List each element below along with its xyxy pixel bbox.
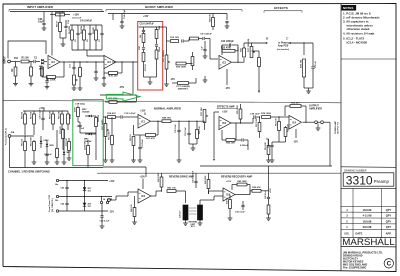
ground below R15 xyxy=(110,159,115,161)
supply rail +15V boost bus xyxy=(108,13,227,15)
revision table column line 2 xyxy=(381,189,383,238)
ground below R10 xyxy=(78,87,83,89)
wire switching bus extension to reverb drive xyxy=(103,166,146,168)
title column divider xyxy=(340,4,342,271)
svg-text:R15 100K: R15 100K xyxy=(109,130,111,140)
resistor R58 1M vertical sw1 xyxy=(24,114,27,124)
resistor R54 10K vertical xyxy=(284,128,287,137)
svg-text:R55 4K7: R55 4K7 xyxy=(291,101,300,104)
svg-text:Amp PCB: Amp PCB xyxy=(278,45,289,48)
resistor R57 1M vertical sw2 xyxy=(33,114,36,124)
svg-text:C30 2.2nF: C30 2.2nF xyxy=(235,212,246,214)
svg-text:R50 47K: R50 47K xyxy=(252,186,261,189)
svg-text:R44 1K: R44 1K xyxy=(226,197,229,204)
svg-text:QPY: QPY xyxy=(386,225,392,229)
wire IC2a output xyxy=(232,61,245,63)
wire C2 to diodes xyxy=(36,61,40,63)
svg-text:FS1: FS1 xyxy=(14,58,19,60)
svg-text:C30 0.1uF: C30 0.1uF xyxy=(40,109,42,119)
reverb transducer coil 1 xyxy=(183,205,188,220)
svg-text:220K/1M: 220K/1M xyxy=(85,142,87,150)
wire join R32 C32 xyxy=(304,87,313,89)
svg-text:R6 47: R6 47 xyxy=(56,20,59,27)
resistor R56 1M vertical lower1 xyxy=(24,142,27,151)
svg-text:C42 47uF: C42 47uF xyxy=(264,190,267,199)
row2 bottom bus xyxy=(200,165,332,167)
capacitor C16 0.047uF vertical xyxy=(64,25,67,27)
ground below R6/C16 xyxy=(61,43,66,45)
svg-text:R60 22K: R60 22K xyxy=(59,111,61,119)
resistor R28 vertical near boost bus xyxy=(212,18,215,27)
svg-text:4. All resistors 1/4 watt.: 4. All resistors 1/4 watt. xyxy=(343,32,375,36)
capacitor C36 10uF xyxy=(187,132,190,134)
capacitor C11 22uF vertical xyxy=(138,146,141,148)
resistor R59 10K vertical sw3 xyxy=(52,114,55,124)
wire reverb drive output xyxy=(151,195,156,197)
svg-text:DRAWING NUMBER: DRAWING NUMBER xyxy=(344,169,367,172)
ground below C35 xyxy=(177,159,182,161)
capacitor C37 0.022uF xyxy=(235,139,241,141)
svg-text:R8 470K: R8 470K xyxy=(80,25,83,34)
resistor R51 vertical under C42 xyxy=(267,205,270,214)
svg-text:R12 1K5: R12 1K5 xyxy=(170,37,179,39)
arrow effects rail down xyxy=(213,159,215,161)
svg-text:R40 100: R40 100 xyxy=(130,204,133,212)
svg-text:POT 10K(B): POT 10K(B) xyxy=(163,50,165,62)
wire +15V rail drop to op-amp IC1a xyxy=(51,12,53,56)
highlight green box reverb switch cell xyxy=(73,100,103,166)
svg-text:+15V: +15V xyxy=(140,177,146,179)
wire joining R6 C16 xyxy=(60,37,66,39)
wire green box internal xyxy=(80,132,96,134)
connector pin J6b 0V xyxy=(56,195,58,197)
section divider row1/row2 xyxy=(4,100,342,103)
resistor R3 vertical xyxy=(30,67,33,76)
capacitor C14 47pF boost decoupling xyxy=(120,20,123,22)
svg-text:R73 10K: R73 10K xyxy=(66,138,68,146)
svg-text:-15V: -15V xyxy=(225,88,230,90)
svg-text:OUTPUT TO: OUTPUT TO xyxy=(338,122,340,134)
copyright symbol xyxy=(384,259,393,268)
svg-text:C36 10uF: C36 10uF xyxy=(185,126,187,136)
resistor R18 47K xyxy=(108,116,116,119)
capacitor C43 47uF vertical xyxy=(270,144,273,146)
svg-text:BOOST AMPLIFIER: BOOST AMPLIFIER xyxy=(145,5,173,9)
svg-text:IC3: IC3 xyxy=(141,195,145,198)
ground below R16 xyxy=(131,159,136,161)
notes box header xyxy=(342,5,356,10)
capacitor C18 under boost xyxy=(94,70,97,72)
svg-text:18.8.89: 18.8.89 xyxy=(363,208,372,212)
footswitch wire xyxy=(11,135,34,137)
section bracket input amplifier xyxy=(9,10,102,12)
resistor R60 22K vertical sw4 xyxy=(61,114,64,124)
wire to IC2a input xyxy=(205,38,210,40)
ground switching 4 xyxy=(62,161,67,163)
svg-text:R1 1M: R1 1M xyxy=(21,56,28,59)
svg-text:REVERB RECOVERY AMP: REVERB RECOVERY AMP xyxy=(221,176,252,179)
svg-text:C14 47pF: C14 47pF xyxy=(123,9,126,19)
ground below VR1 xyxy=(72,87,77,89)
svg-text:C1R 220p: C1R 220p xyxy=(75,104,86,106)
revision table column line 1 xyxy=(352,188,354,237)
arrow to reverb send xyxy=(258,91,260,93)
resistor R40 100 vertical xyxy=(133,208,136,217)
capacitor C30 recovery xyxy=(241,204,244,206)
svg-text:C: C xyxy=(387,261,392,268)
ground below C3 xyxy=(45,86,50,88)
svg-text:R5 220K: R5 220K xyxy=(69,25,71,34)
supply rail +15V top bus xyxy=(10,11,104,13)
wire R1 to C2 xyxy=(29,61,33,63)
zener diode ZD2 15V xyxy=(83,203,86,206)
diode MR7 vertical lower5 xyxy=(63,152,66,155)
op-amp IC2a xyxy=(219,56,231,70)
resistor R37 100K vertical xyxy=(258,123,261,132)
svg-text:-15V: -15V xyxy=(293,142,298,144)
capacitor C42 47uF vertical xyxy=(267,196,270,198)
ground below VR5 xyxy=(103,159,108,161)
svg-text:IC2: IC2 xyxy=(222,61,226,64)
svg-text:QPY: QPY xyxy=(386,219,392,223)
capacitor C32 100uF vertical xyxy=(312,55,314,66)
wire effects amp output xyxy=(231,122,253,124)
resistor R20 100 feedback boost xyxy=(109,72,118,75)
resistor R73 vertical left of green box xyxy=(68,142,71,151)
wire recovery input xyxy=(206,199,214,201)
svg-text:220K: 220K xyxy=(75,107,77,112)
resistor R12 1K5 xyxy=(171,40,179,43)
ground below C43 xyxy=(270,159,275,161)
svg-text:Footswitch (PL1): Footswitch (PL1) xyxy=(5,128,8,145)
diode MR3 green box xyxy=(89,115,92,118)
ground below R51 xyxy=(266,217,271,219)
svg-text:R48 10K: R48 10K xyxy=(162,116,171,119)
ground below C36/R47 xyxy=(191,147,196,149)
connector pin J6c -15V xyxy=(56,210,58,212)
svg-text:4-11-88: 4-11-88 xyxy=(363,214,372,218)
svg-text:18.8.88: 18.8.88 xyxy=(363,219,372,223)
ground below C13 xyxy=(102,83,107,85)
svg-text:EFFECTS: EFFECTS xyxy=(274,6,288,10)
output jack J2 xyxy=(315,121,318,124)
svg-text:INPUT AMPLIFIER: INPUT AMPLIFIER xyxy=(27,5,54,9)
svg-text:EFFECTS AMP: EFFECTS AMP xyxy=(217,106,235,109)
ground switching 3 xyxy=(55,161,60,163)
svg-text:+15V: +15V xyxy=(140,111,146,113)
svg-text:POWER AMP: POWER AMP xyxy=(334,120,337,134)
svg-text:QPY: QPY xyxy=(386,208,392,212)
op-amp IC3a effects amp xyxy=(219,117,231,130)
capacitor C21 tone right col xyxy=(155,44,158,46)
wire recovery to effects return rail xyxy=(268,166,270,191)
svg-text:R9 47K: R9 47K xyxy=(92,26,95,34)
svg-text:R32 220: R32 220 xyxy=(301,59,303,68)
resistor R35 100K vertical xyxy=(239,109,242,119)
output jack J2b xyxy=(321,121,324,124)
ground below R73 xyxy=(67,157,72,159)
svg-text:otherwise stated.: otherwise stated. xyxy=(347,27,371,31)
svg-text:R41 100: R41 100 xyxy=(167,186,176,189)
wire effects amp left rail down xyxy=(213,112,215,158)
wire -15V supply xyxy=(59,210,108,212)
svg-text:INPUT: INPUT xyxy=(3,56,6,64)
highlight green arrow signal flow xyxy=(106,92,140,101)
wire reverb drive input left xyxy=(128,191,138,193)
svg-text:REVERB DRIVE AMP: REVERB DRIVE AMP xyxy=(169,176,194,179)
ground below C29 xyxy=(100,225,105,227)
arrow B' effects send xyxy=(266,42,268,44)
wire sensitivity to R12 xyxy=(167,40,171,42)
svg-text:29.6.88: 29.6.88 xyxy=(363,225,372,229)
svg-text:-15V: -15V xyxy=(119,86,124,89)
svg-text:From Power PCB: From Power PCB xyxy=(48,195,51,212)
wire input network output amp xyxy=(277,116,289,118)
wire +15V supply xyxy=(59,180,108,182)
resistor R15 100K vertical xyxy=(111,136,114,145)
wire boost to row2 bus xyxy=(132,62,134,95)
svg-text:File: 3310PRE.DWG: File: 3310PRE.DWG xyxy=(343,266,366,269)
svg-text:C6 0.1uF: C6 0.1uF xyxy=(72,18,82,20)
wire bus y25 over mid columns xyxy=(70,24,102,26)
svg-text:3310: 3310 xyxy=(346,173,373,187)
svg-text:R54 10K: R54 10K xyxy=(286,124,289,132)
op-amp IC1c normal amplifier xyxy=(138,115,150,129)
resistor RG2 22K vertical green box xyxy=(95,118,98,127)
capacitor C15 boost decoupling xyxy=(225,20,228,22)
resistor R27 47K vertical xyxy=(258,58,261,67)
svg-text:R47 10K: R47 10K xyxy=(198,126,201,134)
resistor R19 470K on channel feed xyxy=(109,101,117,104)
diode LED1 channel indicator xyxy=(40,141,43,144)
resistor R63 47K vertical lower4 xyxy=(56,149,59,158)
wire under C36 R47 xyxy=(189,143,197,145)
wire tone stack bottom join xyxy=(144,76,157,78)
svg-text:IC1: IC1 xyxy=(107,61,111,64)
ground tone stack xyxy=(148,81,153,83)
resistor R53 22K vertical xyxy=(267,146,270,155)
connector jack J4 pair xyxy=(100,201,102,203)
footswitch drop wire xyxy=(9,137,11,167)
svg-text:C8 0.047uF: C8 0.047uF xyxy=(200,33,212,36)
notes box bottom rule xyxy=(341,58,396,60)
ground below R44 xyxy=(228,217,233,219)
svg-text:C11 22uF: C11 22uF xyxy=(142,138,144,148)
ground below C15 xyxy=(225,25,230,27)
diode MR2 green box xyxy=(89,133,92,136)
wire input to R1 xyxy=(14,61,20,63)
wire boost bus drop to IC1b xyxy=(112,14,114,21)
resistor R72 vertical left of green box xyxy=(62,130,65,139)
wire C22 to R13 xyxy=(184,40,189,42)
section bracket effects xyxy=(264,11,302,13)
capacitor C38 10uF xyxy=(252,118,254,123)
resistor R8 470K vertical col3 xyxy=(83,30,86,40)
capacitor C22a 1uF vertical xyxy=(203,48,206,50)
resistor R21 1M5 vertical right col xyxy=(155,30,158,39)
svg-text:C24 1000pF: C24 1000pF xyxy=(221,40,234,43)
svg-text:C35 10uF: C35 10uF xyxy=(175,123,177,133)
svg-text:R37 100K: R37 100K xyxy=(256,117,258,127)
svg-text:R43 100K: R43 100K xyxy=(204,175,207,184)
svg-text:POT 1M(B): POT 1M(B) xyxy=(102,119,104,130)
svg-text:C43 47uF: C43 47uF xyxy=(267,138,270,148)
resistor R39 100K to output amp xyxy=(262,116,271,119)
svg-text:10K6: 10K6 xyxy=(159,46,161,52)
svg-text:+15V: +15V xyxy=(73,14,79,17)
ground below VR2 xyxy=(164,83,169,85)
resistor R9a MID 1M vertical xyxy=(142,34,145,43)
resistor R52 10K vertical xyxy=(278,122,281,131)
svg-text:+15V: +15V xyxy=(109,181,115,183)
resistor RG1 220K vertical green box xyxy=(77,108,80,117)
feedback network R7 100K input amp xyxy=(63,62,65,77)
svg-text:R11 1K: R11 1K xyxy=(145,64,147,71)
potentiometer VR6 effects mix xyxy=(203,110,206,123)
footswitch jack xyxy=(8,135,11,138)
svg-text:(via bracket): (via bracket) xyxy=(277,48,289,51)
resistor R16 1K vertical xyxy=(132,137,135,146)
ground below R32 xyxy=(308,88,310,91)
svg-text:1M: 1M xyxy=(140,35,142,38)
capacitor C13 under boost opamp xyxy=(102,76,105,78)
wire op-amp IC1a output xyxy=(60,61,68,63)
wire coil1 bottom ground xyxy=(185,220,187,223)
Marshall logo box xyxy=(341,236,396,238)
feedback resistor R45 100K recovery xyxy=(237,183,247,186)
feedback resistor R36 10K effects amp xyxy=(235,123,237,140)
svg-text:NORMAL AMPLIFIER: NORMAL AMPLIFIER xyxy=(154,107,181,111)
svg-text:R57 1M: R57 1M xyxy=(31,112,33,119)
resistor R13 47K xyxy=(190,37,199,40)
resistor R26 10K vertical xyxy=(243,48,246,57)
ground right of VR3 xyxy=(195,78,197,83)
svg-text:R72 47K: R72 47K xyxy=(59,126,62,134)
svg-text:C29 0.1uF: C29 0.1uF xyxy=(100,221,111,223)
svg-text:(J6, 7400 P.S.): (J6, 7400 P.S.) xyxy=(51,198,54,212)
svg-text:IC1: IC1 xyxy=(51,61,55,64)
resistor R50 47K recovery output xyxy=(252,189,261,192)
op-amp IC4b reverb recovery xyxy=(223,188,235,201)
resistor R22 10K6 right col xyxy=(155,50,158,59)
capacitor C30 0.1uF vertical sw xyxy=(41,117,44,119)
revision table row header ISS DATE APP xyxy=(341,229,396,231)
svg-text:R59 10K: R59 10K xyxy=(50,111,52,119)
wire 0V supply xyxy=(59,196,112,198)
svg-text:DATE: DATE xyxy=(356,232,363,236)
svg-text:0.022uF: 0.022uF xyxy=(240,145,249,147)
ground switching 1 xyxy=(32,161,37,163)
potentiometer VR4 effects level xyxy=(250,47,253,58)
op-amp IC4a output amplifier xyxy=(289,116,301,130)
wire normal amp output xyxy=(151,120,163,122)
resistor R31 22K vertical mid xyxy=(191,57,194,66)
wire IC1b output to tone stack xyxy=(116,61,138,63)
wire input ground loop xyxy=(8,41,46,59)
zener diode ZD1 15V xyxy=(83,187,86,190)
svg-text:R35 100K: R35 100K xyxy=(237,104,239,114)
svg-text:to Power: to Power xyxy=(278,42,288,45)
revision table row rev1 xyxy=(341,223,396,225)
svg-text:QPY: QPY xyxy=(386,214,392,218)
capacitor C3 under feedback xyxy=(45,80,48,82)
svg-text:100 uF: 100 uF xyxy=(315,60,317,68)
ground below C33 xyxy=(42,27,47,29)
ground below coil2 xyxy=(198,222,203,224)
capacitor C12 0.047uF xyxy=(116,116,121,118)
potentiometer VR1 gain xyxy=(73,75,76,85)
svg-text:Preamp: Preamp xyxy=(374,179,390,184)
diode clipping pair MR1 xyxy=(41,59,44,62)
svg-text:R20 100: R20 100 xyxy=(109,76,118,78)
feedback resistor R17 47K normal amp xyxy=(157,121,159,135)
resistor R44 1K vertical recovery xyxy=(229,200,232,209)
svg-text:C40 0.0047uF: C40 0.0047uF xyxy=(191,170,194,183)
svg-text:-15V: -15V xyxy=(170,79,175,81)
capacitor C6 vertical col4 xyxy=(88,32,91,34)
svg-text:C12 0.47uF: C12 0.47uF xyxy=(124,112,136,115)
svg-text:R39 100K: R39 100K xyxy=(261,113,271,115)
capacitor C45 supply xyxy=(65,186,68,188)
resistor R32 220 vertical xyxy=(303,59,306,77)
potentiometer VR3 master horizontal xyxy=(178,82,189,85)
revision table row rev4 xyxy=(341,205,396,207)
resistor R1 1M xyxy=(21,60,29,63)
ground below R3 xyxy=(29,83,34,85)
op-amp IC3b reverb drive xyxy=(138,189,151,203)
svg-text:MASTER 1: MASTER 1 xyxy=(178,88,189,91)
ground below C14 xyxy=(120,25,125,27)
capacitor C23 xyxy=(202,37,204,40)
resistor R48 10K xyxy=(162,120,171,123)
resistor R10 vertical under node xyxy=(79,68,82,77)
svg-text:+15V: +15V xyxy=(226,181,232,183)
svg-text:R53 22K: R53 22K xyxy=(265,142,267,150)
svg-text:R62 100K: R62 100K xyxy=(31,136,33,146)
capacitor C2 xyxy=(33,60,35,63)
resistor R42 100K vertical reverb drive xyxy=(160,177,163,187)
svg-text:POT 10K: POT 10K xyxy=(201,107,203,116)
ground below R40 xyxy=(132,221,137,223)
capacitor C7 vertical col6 xyxy=(100,32,103,34)
resistor R25 180 xyxy=(56,13,65,16)
resistor R30 100K horizontal mid xyxy=(176,62,186,65)
svg-text:IC3: IC3 xyxy=(222,122,226,125)
diode MR5 switching xyxy=(46,144,49,147)
node junction input-amp to boost xyxy=(68,61,104,63)
jack reverb send xyxy=(108,199,111,202)
ground below R53 xyxy=(266,159,271,161)
drawing number section rule xyxy=(341,166,396,169)
svg-text:R16 1K: R16 1K xyxy=(130,134,132,141)
resistor R62 100K vertical lower2 xyxy=(33,142,36,151)
highlight red box tone stack xyxy=(138,22,163,91)
wire output bus down xyxy=(329,122,331,166)
svg-text:ISS.: ISS. xyxy=(345,232,350,236)
svg-text:+15V: +15V xyxy=(143,16,149,18)
resistor R47 10K vertical xyxy=(196,130,199,139)
svg-text:IC1: IC1 xyxy=(141,120,145,123)
feedback resistor R55 4K7 output amp xyxy=(290,105,301,108)
svg-text:R36 10K: R36 10K xyxy=(226,143,235,145)
svg-text:R52 10K: R52 10K xyxy=(276,118,278,126)
wire bus to boost op-amp xyxy=(86,50,88,56)
svg-text:C4 0.047uF: C4 0.047uF xyxy=(80,20,93,23)
resistor R4 vertical under op-amp xyxy=(41,67,44,76)
svg-text:R17 47K: R17 47K xyxy=(146,137,155,140)
connector pin J6a +15V xyxy=(56,179,58,181)
potentiometer VR5 normal volume xyxy=(104,124,107,137)
